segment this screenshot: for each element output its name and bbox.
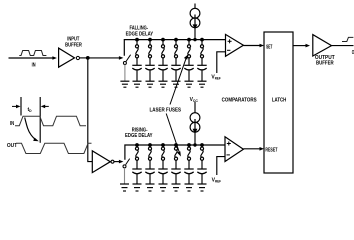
capacitor C8 with laser fuse <box>145 143 154 191</box>
wire buffer output to node <box>80 57 89 59</box>
op-amp U6 output buffer <box>313 35 332 56</box>
arrow right tD <box>44 105 49 107</box>
op-amp comparator U3 falling <box>226 34 244 56</box>
capacitor C1 with laser fuse <box>132 38 141 88</box>
svg-text:OUT: OUT <box>7 143 17 149</box>
svg-text:VREF: VREF <box>211 75 220 81</box>
svg-text:IN: IN <box>32 62 36 68</box>
wire falling bus <box>124 40 225 56</box>
svg-text:LASER FUSES: LASER FUSES <box>150 108 182 114</box>
output waveform symbol <box>342 37 353 41</box>
svg-text:RESET: RESET <box>265 148 278 154</box>
wire curved arrow IN edge to OUT edge <box>25 118 36 140</box>
svg-text:INPUT: INPUT <box>67 36 79 42</box>
op-amp comparator U4 rising <box>225 137 243 162</box>
op-amp U2 lower buffer <box>92 151 110 173</box>
svg-text:VREF: VREF <box>212 178 221 184</box>
ground switch S2 <box>120 183 129 185</box>
svg-text:EDGE DELAY: EDGE DELAY <box>126 32 154 38</box>
switch S2 rising <box>123 165 126 168</box>
wire IN to input buffer <box>9 57 55 59</box>
current source I2 rising <box>194 102 196 113</box>
wire output <box>332 45 354 47</box>
timing diagram: marker line 2 <box>39 97 41 143</box>
svg-text:tD: tD <box>28 107 33 113</box>
switch S1 falling <box>123 62 126 65</box>
svg-text:COMPARATORS: COMPARATORS <box>222 98 258 104</box>
capacitor C3 with laser fuse <box>158 38 167 88</box>
latch U5 <box>264 32 293 173</box>
current source I1 falling <box>194 4 196 9</box>
svg-text:EDGE DELAY: EDGE DELAY <box>125 133 153 139</box>
capacitor C12 with laser fuse <box>197 143 206 191</box>
svg-text:SET: SET <box>266 44 273 50</box>
wire arrow to falling fuses <box>170 59 186 105</box>
wire Vref to comparator U4 <box>217 157 225 175</box>
capacitor C11 with laser fuse <box>184 143 193 191</box>
input waveform symbol <box>19 51 46 56</box>
wire IN timing waveform <box>15 116 86 126</box>
capacitor C10 with laser fuse <box>171 143 180 191</box>
wire comparator U3 to latch SET <box>243 45 261 47</box>
capacitor C6 with laser fuse <box>197 38 206 88</box>
svg-text:BUFFER: BUFFER <box>316 61 334 67</box>
wire OUT timing waveform <box>16 143 92 153</box>
capacitor C9 with laser fuse <box>158 143 167 191</box>
capacitor C5 with laser fuse <box>184 38 193 88</box>
capacitor C7 with laser fuse <box>132 143 141 191</box>
capacitor C4 with laser fuse <box>171 38 180 88</box>
wire comparator U4 to latch RESET <box>243 148 261 150</box>
wire latch to output buffer <box>293 45 307 47</box>
timing diagram: marker line 1 <box>20 97 22 116</box>
svg-text:FALLING-: FALLING- <box>130 25 149 31</box>
wire node A down to lower buffer <box>88 58 93 162</box>
capacitor C2 with laser fuse <box>145 38 154 88</box>
ground switch S1 <box>120 80 129 82</box>
wire lower buffer to rising switch <box>114 161 121 163</box>
wire arrow to rising fuses <box>166 114 179 153</box>
wire node A to falling switch <box>88 57 121 59</box>
svg-text:BUFFER: BUFFER <box>65 42 82 48</box>
arrow left tD <box>12 105 17 107</box>
wire rising bus <box>125 145 225 160</box>
wire Vref to comparator U3 <box>217 52 226 73</box>
node junction A <box>86 56 90 60</box>
svg-text:IN: IN <box>10 121 15 127</box>
svg-text:LATCH: LATCH <box>272 97 287 103</box>
